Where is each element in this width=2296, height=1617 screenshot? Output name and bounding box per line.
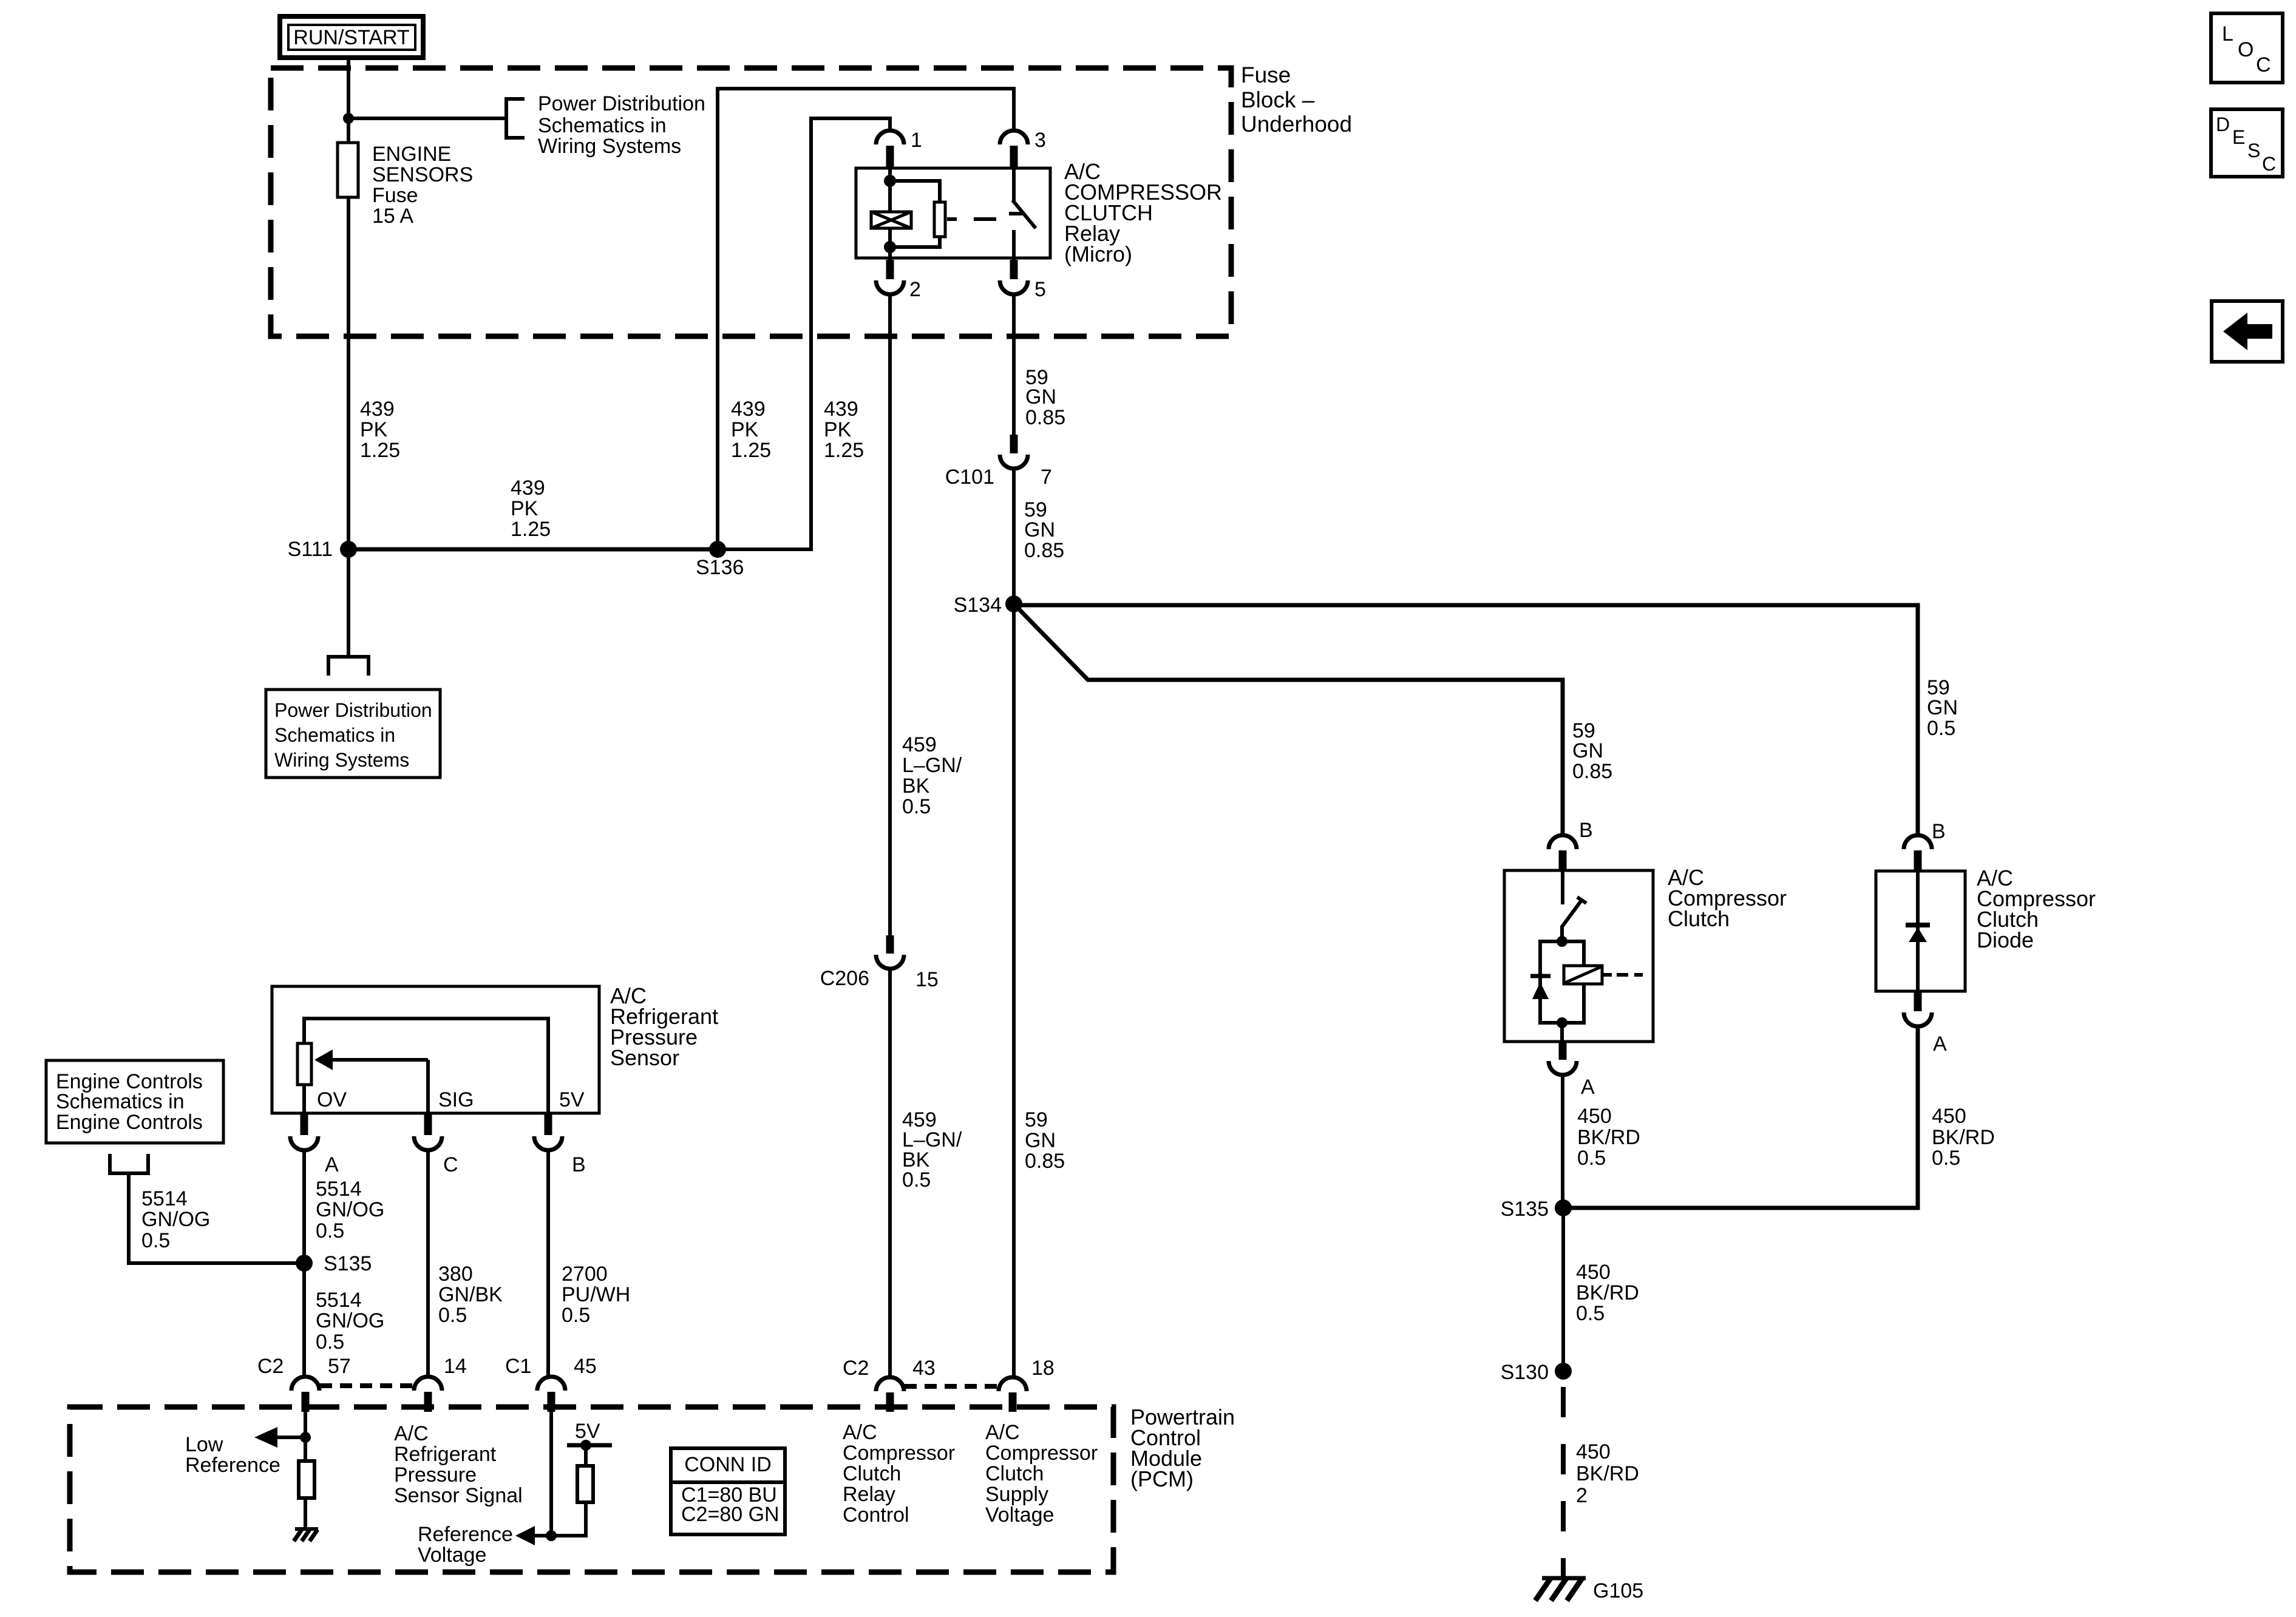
svg-text:S135: S135 xyxy=(1501,1198,1549,1221)
label: A/C Compressor Clutch Relay Control xyxy=(843,1421,955,1527)
svg-text:43: 43 xyxy=(912,1357,936,1380)
wire: sensor pin A to PCM pin 57 (5514 GN/OG) xyxy=(302,1150,306,1377)
label: 5514 GN/OG 0.5 (below S135) xyxy=(316,1289,384,1354)
off-page bracket to Power Distribution Schematics xyxy=(506,99,525,138)
relay pin 2 connector xyxy=(886,260,894,279)
svg-text:Refrigerant: Refrigerant xyxy=(394,1443,497,1466)
node: low reference junction xyxy=(300,1432,311,1443)
svg-text:RUN/START: RUN/START xyxy=(293,26,409,49)
wire: Engine Controls to S135 (5514 GN/OG) xyxy=(129,1173,304,1263)
svg-text:Wiring Systems: Wiring Systems xyxy=(274,749,409,771)
A/C Compressor Clutch body xyxy=(1504,870,1653,1042)
label: 450 BK/RD 0.5 (below S135) xyxy=(1576,1261,1639,1325)
PCM internal ground xyxy=(294,1529,318,1541)
reference voltage arrow xyxy=(515,1526,551,1545)
A/C compressor clutch diode pin A connector xyxy=(1914,991,1922,1011)
svg-text:A: A xyxy=(1581,1076,1595,1099)
svg-text:Voltage: Voltage xyxy=(418,1544,486,1567)
svg-text:E: E xyxy=(2232,126,2245,148)
svg-text:Pressure: Pressure xyxy=(394,1463,477,1486)
svg-text:GN: GN xyxy=(1025,385,1056,408)
label: 5514 GN/OG 0.5 (pin A above S135) xyxy=(316,1178,384,1242)
svg-text:0.5: 0.5 xyxy=(316,1219,344,1242)
label: Reference Voltage xyxy=(418,1523,513,1567)
svg-text:Fuse: Fuse xyxy=(372,184,418,207)
svg-text:450: 450 xyxy=(1577,1105,1612,1128)
svg-text:45: 45 xyxy=(574,1355,597,1378)
svg-text:0.85: 0.85 xyxy=(1025,1150,1065,1173)
node: coil bottom junction xyxy=(884,241,896,253)
relay actuator dashed link xyxy=(947,217,996,221)
svg-text:S135: S135 xyxy=(324,1252,372,1275)
sensor wiper arrow xyxy=(314,1049,428,1114)
node: splice S130 xyxy=(1555,1363,1572,1380)
svg-text:0.5: 0.5 xyxy=(141,1229,170,1252)
label: A/C Compressor Clutch Diode xyxy=(1977,866,2096,952)
svg-text:Control: Control xyxy=(843,1503,909,1527)
node: clutch bottom junction xyxy=(1557,1017,1567,1028)
svg-text:C1: C1 xyxy=(505,1355,531,1378)
clutch suppression loop wiring xyxy=(1540,941,1562,1023)
svg-text:SIG: SIG xyxy=(438,1088,474,1111)
svg-text:0.5: 0.5 xyxy=(902,1168,931,1192)
svg-text:0.5: 0.5 xyxy=(1932,1147,1960,1170)
node: 5V rail junction xyxy=(580,1440,591,1451)
svg-text:439: 439 xyxy=(731,398,766,421)
svg-text:GN/OG: GN/OG xyxy=(316,1198,384,1221)
relay resistor (parallel with coil) xyxy=(890,181,945,247)
PCM reference voltage circuit wire xyxy=(549,1412,553,1536)
svg-text:O: O xyxy=(2238,38,2254,61)
svg-text:5V: 5V xyxy=(575,1420,600,1443)
PCM internal resistor (low reference) xyxy=(299,1461,314,1498)
PCM pin 43 connector xyxy=(876,1377,904,1391)
svg-text:0.5: 0.5 xyxy=(1577,1147,1606,1170)
svg-text:OV: OV xyxy=(317,1088,347,1111)
svg-text:Schematics in: Schematics in xyxy=(56,1090,185,1113)
svg-text:0.85: 0.85 xyxy=(1024,539,1064,562)
label: ENGINE SENSORS Fuse 15 A xyxy=(372,143,473,228)
svg-text:L: L xyxy=(2222,22,2233,46)
svg-text:57: 57 xyxy=(328,1355,351,1378)
svg-text:C2: C2 xyxy=(257,1355,284,1378)
svg-text:GN/BK: GN/BK xyxy=(438,1283,503,1306)
label: 450 BK/RD 2 xyxy=(1576,1440,1639,1507)
clutch internal diode xyxy=(1530,976,1550,999)
ignition feed box RUN/START xyxy=(280,16,423,58)
wire: S136 right, up and over to relay pin 1 (439 PK) xyxy=(718,118,890,549)
svg-text:3: 3 xyxy=(1034,129,1046,152)
relay K1: A/C COMPRESSOR CLUTCH Relay (Micro) body xyxy=(856,168,1050,258)
sensor pin A connector xyxy=(301,1114,308,1135)
svg-text:A/C: A/C xyxy=(843,1421,877,1444)
label: Fuse Block - Underhood xyxy=(1241,63,1352,137)
wire: RUN/START down to S111 (439 PK) xyxy=(347,60,350,549)
label: Low Reference xyxy=(185,1433,280,1477)
svg-text:A: A xyxy=(1933,1032,1947,1056)
svg-text:5514: 5514 xyxy=(316,1178,362,1201)
label: 59 GN 0.85 (above PCM pin 18) xyxy=(1025,1108,1065,1173)
svg-text:0.5: 0.5 xyxy=(438,1304,467,1327)
svg-text:SENSORS: SENSORS xyxy=(372,163,473,186)
svg-text:15: 15 xyxy=(915,968,939,991)
svg-text:GN: GN xyxy=(1572,739,1603,762)
off-page bracket below S111 xyxy=(328,657,369,676)
svg-text:ENGINE: ENGINE xyxy=(372,143,451,166)
svg-text:380: 380 xyxy=(438,1263,473,1286)
label: 439 PK 1.25 (S111-S136 wire) xyxy=(511,476,551,541)
svg-text:C: C xyxy=(443,1153,458,1176)
diode element xyxy=(1906,871,1930,991)
svg-text:Clutch: Clutch xyxy=(843,1462,901,1485)
svg-text:Schematics in: Schematics in xyxy=(274,724,395,746)
wire: S111 down to power distribution bracket xyxy=(347,549,350,657)
clutch actuator dashed link xyxy=(1603,973,1643,977)
node: splice S136 xyxy=(709,541,726,558)
svg-text:59: 59 xyxy=(1025,1108,1048,1131)
PCM low reference circuit wire xyxy=(304,1412,307,1459)
svg-text:GN: GN xyxy=(1025,1129,1056,1152)
svg-text:5V: 5V xyxy=(559,1088,585,1111)
label: 439 PK 1.25 (pin3 riser) xyxy=(731,398,771,462)
clutch coil (box with slash) xyxy=(1564,966,1602,984)
svg-text:1: 1 xyxy=(911,129,922,152)
svg-text:CONN ID: CONN ID xyxy=(684,1453,772,1476)
relay pin 3 connector xyxy=(1000,131,1028,144)
label: A/C Compressor Clutch xyxy=(1668,865,1787,931)
svg-text:1.25: 1.25 xyxy=(824,439,864,462)
svg-text:1.25: 1.25 xyxy=(731,439,771,462)
svg-text:7: 7 xyxy=(1041,466,1052,489)
svg-text:Sensor Signal: Sensor Signal xyxy=(394,1484,523,1507)
label: 59 GN 0.85 (above C101) xyxy=(1025,366,1065,429)
svg-text:Block –: Block – xyxy=(1241,87,1315,112)
svg-text:18: 18 xyxy=(1031,1357,1055,1380)
wire: sensor pin B to PCM pin 45 (2700 PU/WH) xyxy=(546,1150,550,1377)
PCM internal resistor (reference voltage pull-up) xyxy=(551,1445,593,1536)
wire: clutch bottom to pin A xyxy=(1560,1023,1564,1043)
wire: clutch pin A down to S135 (450 BK/RD) xyxy=(1561,1074,1564,1208)
relay pin 5 connector xyxy=(1010,260,1018,279)
svg-text:BK: BK xyxy=(902,775,930,798)
label: 59 GN 0.5 (diode branch) xyxy=(1927,676,1958,740)
label: 459 L-GN/BK 0.5 (above C206) xyxy=(902,733,962,818)
svg-text:15 A: 15 A xyxy=(372,205,413,228)
PCM pin 14 connector xyxy=(414,1377,442,1391)
svg-text:BK/RD: BK/RD xyxy=(1576,1281,1639,1304)
wire: coil bottom to pin 2 xyxy=(888,229,892,260)
svg-text:Compressor: Compressor xyxy=(985,1442,1098,1465)
reference box: Engine Controls Schematics in Engine Controls xyxy=(46,1060,223,1143)
svg-text:Clutch: Clutch xyxy=(1668,906,1730,931)
svg-text:BK/RD: BK/RD xyxy=(1576,1462,1639,1485)
svg-text:439: 439 xyxy=(360,398,395,421)
node: junction dot at fuse feed branch xyxy=(343,113,354,124)
label: A/C Refrigerant Pressure Sensor Signal xyxy=(394,1422,523,1507)
off-page bracket below Engine Controls box xyxy=(110,1154,148,1173)
svg-text:Compressor: Compressor xyxy=(843,1442,955,1465)
node: reference voltage junction xyxy=(546,1530,557,1541)
svg-text:1.25: 1.25 xyxy=(511,518,551,541)
node: splice S135 (left) xyxy=(296,1255,313,1272)
A/C Compressor Clutch Diode body xyxy=(1876,871,1965,991)
fuse: ENGINE SENSORS Fuse 15 A xyxy=(338,143,358,197)
node: coil top junction xyxy=(884,175,896,187)
ground G105 xyxy=(1535,1578,1643,1602)
svg-text:S134: S134 xyxy=(954,594,1002,617)
label: A/C Refrigerant Pressure Sensor xyxy=(610,983,718,1070)
svg-text:2700: 2700 xyxy=(562,1263,608,1286)
label: 450 BK/RD 0.5 (clutch side) xyxy=(1577,1105,1640,1170)
label: A/C Compressor Clutch Supply Voltage xyxy=(985,1421,1098,1527)
svg-text:C2=80 GN: C2=80 GN xyxy=(681,1503,779,1526)
svg-text:0.5: 0.5 xyxy=(562,1304,590,1327)
svg-text:0.5: 0.5 xyxy=(1927,717,1955,740)
svg-text:G105: G105 xyxy=(1593,1579,1643,1602)
svg-text:B: B xyxy=(1932,820,1946,843)
label: 439 PK 1.25 (S111 wire) xyxy=(360,398,400,462)
node: clutch top junction xyxy=(1557,936,1567,947)
svg-text:Voltage: Voltage xyxy=(985,1503,1054,1527)
Powertrain Control Module (PCM) dashed enclosure xyxy=(70,1407,1113,1572)
wire: S134 right to A/C compressor clutch diode pin B (59 GN) xyxy=(1014,605,1918,836)
svg-text:C2: C2 xyxy=(843,1357,869,1380)
label: 5514 GN/OG 0.5 (engine controls branch) xyxy=(141,1187,210,1252)
low reference arrow xyxy=(254,1427,305,1448)
svg-text:Sensor: Sensor xyxy=(610,1045,679,1070)
svg-text:PK: PK xyxy=(511,497,538,520)
svg-text:Power Distribution: Power Distribution xyxy=(538,92,705,115)
svg-text:5514: 5514 xyxy=(316,1289,362,1312)
clutch internal switch xyxy=(1561,870,1586,941)
node: splice S135 (right) xyxy=(1555,1199,1572,1216)
dashed connector body line 57-14 xyxy=(320,1383,413,1388)
svg-text:14: 14 xyxy=(444,1355,467,1378)
wire: relay pin 2 down to connector C206 (459 L-GN/BK) xyxy=(888,294,892,935)
svg-text:L–GN/: L–GN/ xyxy=(902,754,962,777)
svg-text:5514: 5514 xyxy=(141,1187,188,1210)
svg-text:0.85: 0.85 xyxy=(1572,760,1612,783)
PCM pin 57 connector xyxy=(291,1377,319,1391)
svg-text:D: D xyxy=(2216,114,2230,135)
5V supply rail tick xyxy=(567,1443,612,1448)
label: A/C COMPRESSOR CLUTCH Relay (Micro) xyxy=(1064,159,1222,266)
svg-text:(PCM): (PCM) xyxy=(1130,1466,1194,1491)
wire: sensor pin C to PCM pin 14 (380 GN/BK) xyxy=(426,1150,430,1377)
relay coil (box with X) xyxy=(871,212,911,228)
svg-text:BK/RD: BK/RD xyxy=(1932,1126,1995,1149)
label: Powertrain Control Module (PCM) xyxy=(1130,1405,1235,1491)
svg-text:C101: C101 xyxy=(945,466,994,489)
A/C compressor clutch diode pin B connector xyxy=(1904,835,1932,849)
svg-text:439: 439 xyxy=(824,398,858,421)
svg-text:PK: PK xyxy=(731,418,759,441)
svg-text:GN/OG: GN/OG xyxy=(141,1208,210,1231)
svg-text:450: 450 xyxy=(1576,1440,1611,1463)
reference box: Power Distribution Schematics in Wiring Systems xyxy=(266,690,440,778)
svg-text:439: 439 xyxy=(511,476,545,500)
LOC icon box xyxy=(2211,13,2283,83)
svg-text:C: C xyxy=(2256,53,2271,76)
svg-text:S130: S130 xyxy=(1501,1361,1549,1384)
svg-text:S111: S111 xyxy=(288,538,333,561)
wire: S111 to S136 splice (439 PK) xyxy=(348,547,718,552)
svg-text:2: 2 xyxy=(1576,1484,1588,1507)
fuse block - underhood (dashed enclosure) xyxy=(271,68,1231,336)
svg-text:Low: Low xyxy=(185,1433,223,1456)
svg-text:0.5: 0.5 xyxy=(316,1331,344,1354)
svg-text:PK: PK xyxy=(824,418,852,441)
svg-text:Schematics in: Schematics in xyxy=(538,114,667,137)
svg-text:GN: GN xyxy=(1927,696,1958,719)
svg-text:450: 450 xyxy=(1576,1261,1611,1284)
svg-text:Diode: Diode xyxy=(1977,927,2034,952)
svg-text:GN/OG: GN/OG xyxy=(316,1309,384,1332)
dashed connector body line 43-18 xyxy=(905,1384,998,1389)
wire: C101 down through S134 to PCM pin 18 (59 GN) xyxy=(1012,468,1016,1377)
svg-text:Clutch: Clutch xyxy=(985,1462,1044,1485)
A/C Refrigerant Pressure Sensor body xyxy=(272,986,599,1113)
back arrow icon box xyxy=(2212,301,2283,362)
wire: relay pin 5 down to connector C101 (59 GN) xyxy=(1012,294,1016,435)
node: splice S134 xyxy=(1005,595,1022,612)
label: 2700 PU/WH 0.5 xyxy=(562,1263,630,1327)
svg-text:GN: GN xyxy=(1024,518,1055,541)
label: 450 BK/RD 0.5 (diode side) xyxy=(1932,1105,1995,1170)
svg-text:Supply: Supply xyxy=(985,1483,1048,1506)
wire: diode pin A down and left to S135 (450 BK/RD) xyxy=(1563,1026,1918,1208)
DESC icon box xyxy=(2211,109,2283,177)
label: 380 GN/BK 0.5 xyxy=(438,1263,503,1327)
wire: S135 down to S130 (450 BK/RD) xyxy=(1561,1208,1565,1371)
label: 459 L-GN/BK 0.5 (above PCM pin 43) xyxy=(902,1108,962,1192)
label: Power Distribution Schematics in Wiring Systems (top) xyxy=(538,92,705,158)
node: splice S111 xyxy=(340,541,357,558)
sensor pin C connector xyxy=(424,1114,432,1135)
svg-text:0.85: 0.85 xyxy=(1025,406,1065,429)
svg-text:5: 5 xyxy=(1034,278,1046,301)
svg-text:1.25: 1.25 xyxy=(360,439,400,462)
wire: C206 down to PCM pin 43 (459 L-GN/BK) xyxy=(888,968,892,1377)
svg-text:C206: C206 xyxy=(820,967,869,990)
svg-text:Engine Controls: Engine Controls xyxy=(56,1111,203,1134)
label: 59 GN 0.85 (clutch branch) xyxy=(1572,719,1612,783)
label: 439 PK 1.25 (pin1 riser) xyxy=(824,398,864,462)
relay coil branch wire xyxy=(888,168,892,211)
svg-text:Reference: Reference xyxy=(418,1523,513,1546)
wire: S130 dashed to ground G105 (450 BK/RD 2) xyxy=(1561,1387,1566,1577)
svg-text:B: B xyxy=(1579,819,1593,842)
svg-text:Relay: Relay xyxy=(843,1483,895,1506)
connector C206 pin 15 xyxy=(886,935,894,954)
svg-text:2: 2 xyxy=(909,278,921,301)
svg-text:Underhood: Underhood xyxy=(1241,112,1352,137)
wire: branch to Power Distribution reference xyxy=(348,117,506,120)
wire: S134 diagonal branch to A/C compressor clutch pin B (59 GN) xyxy=(1014,604,1563,836)
svg-text:0.5: 0.5 xyxy=(902,795,931,818)
svg-text:C: C xyxy=(2262,153,2276,175)
svg-text:PK: PK xyxy=(360,418,388,441)
svg-text:BK/RD: BK/RD xyxy=(1577,1126,1640,1149)
PCM pin 45 connector xyxy=(537,1377,565,1391)
sensor potentiometer element xyxy=(297,1019,548,1114)
svg-text:Power Distribution: Power Distribution xyxy=(274,699,432,721)
svg-text:PU/WH: PU/WH xyxy=(562,1283,630,1306)
PCM pin 18 connector xyxy=(999,1377,1027,1391)
svg-text:Wiring Systems: Wiring Systems xyxy=(538,135,681,158)
sensor pin B connector xyxy=(545,1114,552,1135)
svg-text:0.5: 0.5 xyxy=(1576,1302,1605,1325)
svg-text:A: A xyxy=(325,1153,339,1176)
label: 59 GN 0.85 (below C101) xyxy=(1024,498,1064,562)
svg-text:A/C: A/C xyxy=(985,1421,1020,1444)
svg-text:(Micro): (Micro) xyxy=(1064,242,1132,266)
A/C compressor clutch pin A connector xyxy=(1559,1043,1567,1060)
svg-text:Reference: Reference xyxy=(185,1454,280,1477)
svg-text:459: 459 xyxy=(902,733,937,756)
wire: S136 up and over to relay pin 3 (439 PK) xyxy=(718,89,1014,549)
connector C101 pin 7 xyxy=(1010,435,1018,453)
relay switch (pin 3 to pin 5) xyxy=(1009,168,1036,260)
svg-text:A/C: A/C xyxy=(394,1422,429,1445)
CONN ID table xyxy=(669,1448,787,1534)
relay pin 1 connector xyxy=(876,131,904,144)
svg-text:S136: S136 xyxy=(696,556,744,579)
svg-text:S: S xyxy=(2247,140,2260,161)
svg-text:Fuse: Fuse xyxy=(1241,63,1291,87)
svg-text:B: B xyxy=(572,1153,586,1176)
A/C compressor clutch pin B connector xyxy=(1549,835,1577,849)
svg-text:450: 450 xyxy=(1932,1105,1966,1128)
